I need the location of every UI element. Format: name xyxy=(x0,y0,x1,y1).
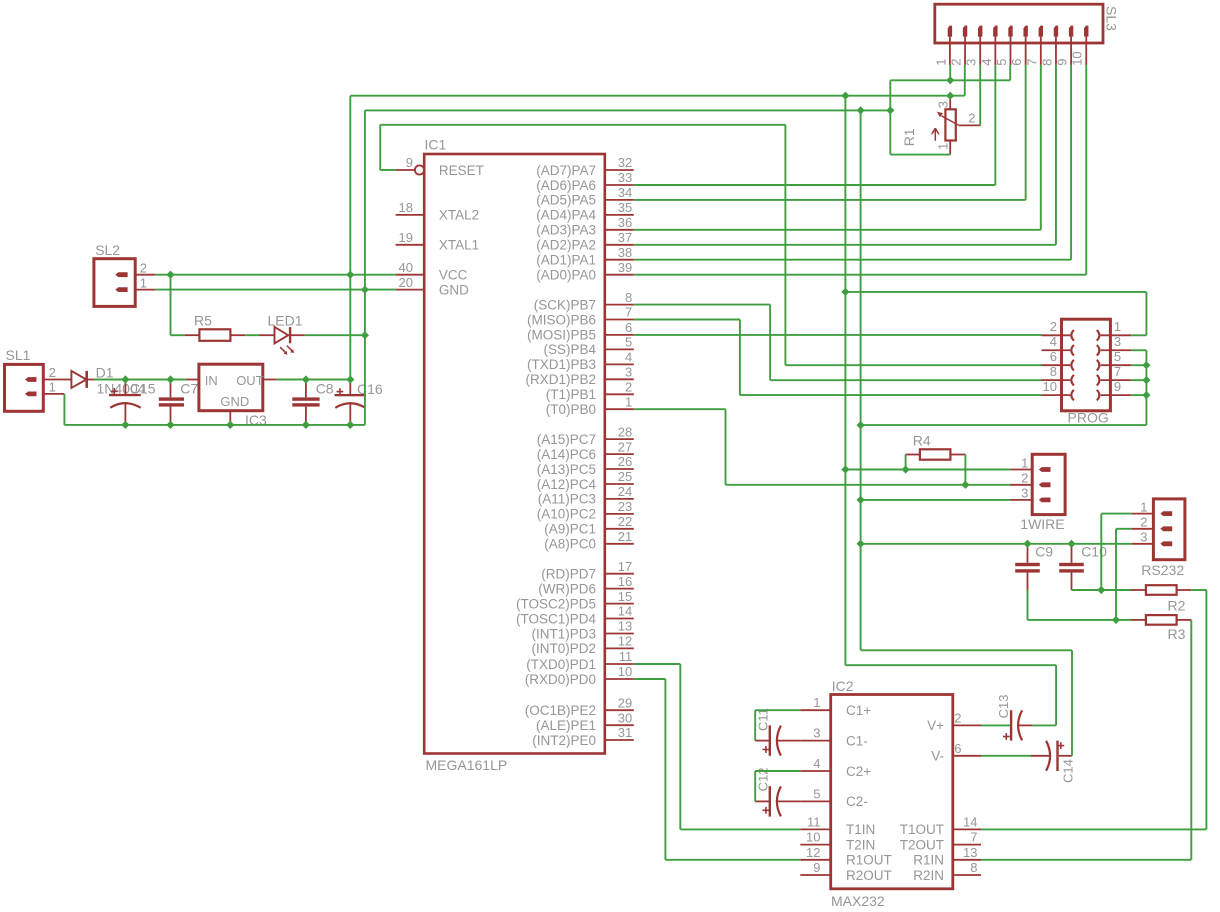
IC2 pin 1 C1+ xyxy=(800,695,871,718)
svg-text:R5: R5 xyxy=(194,313,212,329)
svg-text:3: 3 xyxy=(1114,334,1121,349)
svg-text:(RD)PD7: (RD)PD7 xyxy=(541,567,596,582)
wire R2 right xyxy=(1191,589,1206,591)
svg-text:34: 34 xyxy=(618,185,632,200)
svg-text:(T1)PB1: (T1)PB1 xyxy=(546,387,596,402)
svg-text:(RXD1)PB2: (RXD1)PB2 xyxy=(525,372,596,387)
wire RESET up xyxy=(379,125,381,170)
svg-text:(AD4)PA4: (AD4)PA4 xyxy=(536,208,596,223)
IC1 pin 5 (SS)PB4 xyxy=(543,335,633,358)
svg-text:6: 6 xyxy=(625,320,632,335)
IC1 pin 35 (AD4)PA4 xyxy=(536,200,634,223)
wire SL3 pin1 xyxy=(949,65,951,80)
junction xyxy=(361,286,369,294)
svg-text:7: 7 xyxy=(1114,364,1121,379)
junction xyxy=(302,375,310,383)
IC1 pin 24 (A11)PC3 xyxy=(538,484,634,507)
IC1 pin 26 (A13)PC5 xyxy=(537,454,634,477)
svg-text:C16: C16 xyxy=(357,381,383,397)
svg-text:2: 2 xyxy=(954,710,961,725)
svg-text:R2IN: R2IN xyxy=(913,868,944,883)
svg-text:RS232: RS232 xyxy=(1141,562,1184,578)
wire VCC to 1WIRE1 xyxy=(845,469,1010,471)
IC2 pin 11 T1IN xyxy=(800,814,875,837)
wire C13 drop xyxy=(1055,665,1057,725)
svg-text:27: 27 xyxy=(618,439,632,454)
IC1 pin 34 (AD5)PA5 xyxy=(536,185,634,208)
wire PD0 xyxy=(634,678,666,680)
IC1 pin 3 (RXD1)PB2 xyxy=(525,365,633,388)
svg-text:24: 24 xyxy=(618,484,632,499)
svg-text:17: 17 xyxy=(618,559,632,574)
wire C2+ xyxy=(755,770,800,772)
svg-text:2: 2 xyxy=(49,365,56,380)
svg-text:GND: GND xyxy=(220,394,249,409)
junction xyxy=(961,481,969,489)
svg-text:9: 9 xyxy=(1114,379,1121,394)
svg-text:(A8)PC0: (A8)PC0 xyxy=(544,537,596,552)
svg-text:19: 19 xyxy=(399,230,413,245)
svg-text:R1IN: R1IN xyxy=(913,853,944,868)
svg-text:21: 21 xyxy=(618,529,632,544)
svg-text:C11: C11 xyxy=(756,708,771,731)
wire C9-R3 xyxy=(1028,619,1132,621)
svg-text:T1IN: T1IN xyxy=(846,822,875,837)
wire to R1 pin1 xyxy=(890,154,950,156)
svg-text:13: 13 xyxy=(618,619,632,634)
IC1 pin 15 (TOSC2)PD5 xyxy=(516,589,634,612)
svg-text:3: 3 xyxy=(625,365,632,380)
svg-text:36: 36 xyxy=(618,215,632,230)
wire PA row 199.9 xyxy=(634,199,1026,201)
capacitor C7 xyxy=(159,380,199,425)
wire R1IN riser xyxy=(1190,620,1192,860)
IC1 pin 38 (AD1)PA1 xyxy=(536,245,634,268)
trimmer resistor R1 xyxy=(901,97,981,155)
svg-text:4: 4 xyxy=(625,350,632,365)
junction xyxy=(857,496,865,504)
junction xyxy=(346,375,354,383)
wire PROG gnd riser xyxy=(1145,350,1147,425)
wire RESET drop xyxy=(784,125,786,365)
svg-text:10: 10 xyxy=(1043,379,1057,394)
svg-text:3: 3 xyxy=(964,59,979,66)
svg-text:4: 4 xyxy=(813,756,820,771)
junction xyxy=(361,331,369,339)
wire C1+ xyxy=(755,709,800,711)
svg-text:T2IN: T2IN xyxy=(846,837,875,852)
svg-text:26: 26 xyxy=(618,454,632,469)
wire V+ xyxy=(981,724,1010,726)
wire PD1 to T1IN xyxy=(680,828,800,830)
svg-text:VCC: VCC xyxy=(439,268,468,283)
svg-text:1: 1 xyxy=(936,143,951,150)
svg-text:1: 1 xyxy=(813,695,820,710)
svg-text:5: 5 xyxy=(994,59,1009,66)
svg-text:C10: C10 xyxy=(1081,544,1107,560)
wire PD0 to R1OUT xyxy=(665,859,800,861)
wire GND to RS232-3 xyxy=(861,543,1132,545)
svg-text:9: 9 xyxy=(1055,59,1070,66)
svg-text:MAX232: MAX232 xyxy=(831,893,885,909)
svg-text:PROG: PROG xyxy=(1068,410,1109,426)
svg-text:3: 3 xyxy=(813,726,820,741)
svg-text:1: 1 xyxy=(49,380,56,395)
svg-text:8: 8 xyxy=(625,290,632,305)
wire C10-R2 xyxy=(1072,589,1132,591)
svg-text:9: 9 xyxy=(406,155,413,170)
IC1 pin 9 RESET xyxy=(396,155,484,178)
svg-text:(TXD0)PD1: (TXD0)PD1 xyxy=(526,657,596,672)
junction xyxy=(857,540,865,548)
IC1 pin 12 (INT0)PD2 xyxy=(531,634,633,657)
svg-text:(TOSC2)PD5: (TOSC2)PD5 xyxy=(516,596,596,611)
wire GND row xyxy=(155,289,395,291)
svg-text:6: 6 xyxy=(1050,349,1057,364)
IC2 pin 14 T1OUT xyxy=(900,814,981,837)
svg-text:2: 2 xyxy=(140,260,147,275)
svg-text:37: 37 xyxy=(618,230,632,245)
svg-text:R1: R1 xyxy=(901,128,917,146)
svg-text:(A13)PC5: (A13)PC5 xyxy=(537,462,596,477)
wire to R5 xyxy=(171,334,185,336)
svg-text:40: 40 xyxy=(399,260,413,275)
svg-text:C1+: C1+ xyxy=(846,703,871,718)
wire PA row 274.7 xyxy=(634,274,1086,276)
wire SL3 column xyxy=(1040,65,1042,230)
svg-text:C15: C15 xyxy=(130,381,156,397)
wire RESET top xyxy=(380,124,785,126)
IC1 pin 6 (MOSI)PB5 xyxy=(527,320,634,343)
junction xyxy=(166,375,174,383)
svg-text:4: 4 xyxy=(979,59,994,66)
svg-text:(AD3)PA3: (AD3)PA3 xyxy=(536,223,596,238)
wire RS232-1 drop xyxy=(1100,514,1102,590)
IC2 pin 10 T2IN xyxy=(800,830,875,853)
IC1 pin 4 (TXD1)PB3 xyxy=(527,350,634,373)
wire GND to 1WIRE3 xyxy=(861,499,1010,501)
svg-text:25: 25 xyxy=(618,469,632,484)
wire SL3 pin2 xyxy=(964,65,966,96)
svg-text:1: 1 xyxy=(1021,455,1028,470)
svg-text:R4: R4 xyxy=(913,432,931,448)
wire MISO drop xyxy=(739,320,741,396)
svg-text:7: 7 xyxy=(625,305,632,320)
svg-text:(SCK)PB7: (SCK)PB7 xyxy=(534,297,596,312)
svg-text:8: 8 xyxy=(970,860,977,875)
svg-text:1: 1 xyxy=(140,275,147,290)
svg-text:C1-: C1- xyxy=(846,733,868,748)
wire C14 drop xyxy=(1071,650,1073,756)
svg-text:(RXD0)PD0: (RXD0)PD0 xyxy=(525,672,596,687)
svg-text:(A12)PC4: (A12)PC4 xyxy=(537,477,597,492)
wire VCC row xyxy=(155,274,395,276)
wire PA row 229.8 xyxy=(634,229,1041,231)
junction xyxy=(302,421,310,429)
svg-text:XTAL1: XTAL1 xyxy=(439,238,479,253)
diode D1 1N4004 xyxy=(71,364,145,396)
wire SL3 pin5 xyxy=(1009,65,1011,80)
IC1 pin 19 XTAL1 xyxy=(396,230,480,253)
junction xyxy=(1112,616,1120,624)
svg-text:SL1: SL1 xyxy=(6,347,31,363)
wire LED1 cathode xyxy=(305,334,365,336)
junction xyxy=(346,271,354,279)
wire PD0 drop xyxy=(664,679,666,860)
svg-text:R3: R3 xyxy=(1168,626,1186,642)
IC1 pin 18 XTAL2 xyxy=(396,200,480,223)
svg-text:20: 20 xyxy=(399,275,413,290)
wire VCC to PROG1 xyxy=(845,291,1146,293)
svg-text:(T0)PB0: (T0)PB0 xyxy=(546,402,596,417)
wire PROG5 xyxy=(1131,364,1146,366)
wire GND top xyxy=(365,109,890,111)
wire PD1 xyxy=(634,663,681,665)
svg-text:16: 16 xyxy=(618,574,632,589)
IC1 pin 2 (T1)PB1 xyxy=(546,380,634,403)
IC IC2 MAX232 body xyxy=(831,678,953,909)
wire MOSI to PROG2 xyxy=(634,334,1042,336)
IC1 pin 20 GND xyxy=(396,275,470,298)
svg-text:2: 2 xyxy=(1140,515,1147,530)
svg-text:32: 32 xyxy=(618,155,632,170)
wire D1 to IC3 IN xyxy=(94,379,186,381)
svg-text:(INT1)PD3: (INT1)PD3 xyxy=(531,626,596,641)
IC1 pin 30 (ALE)PE1 xyxy=(536,710,634,733)
junction xyxy=(1097,586,1105,594)
IC1 pin 32 (AD7)PA7 xyxy=(536,155,634,178)
wire RS232-2 xyxy=(1116,528,1131,530)
IC2 pin 7 T2OUT xyxy=(900,830,981,853)
IC1 pin 22 (A9)PC1 xyxy=(544,514,634,537)
svg-text:(INT2)PE0: (INT2)PE0 xyxy=(532,733,596,748)
svg-text:D1: D1 xyxy=(96,364,114,380)
svg-text:15: 15 xyxy=(618,589,632,604)
capacitor C13 (polarized) xyxy=(996,695,1033,741)
svg-text:23: 23 xyxy=(618,499,632,514)
IC1 pin 25 (A12)PC4 xyxy=(537,469,634,492)
wire R4 right leg xyxy=(964,455,966,485)
svg-text:C7: C7 xyxy=(180,381,198,397)
IC1 pin 39 (AD0)PA0 xyxy=(536,260,634,283)
capacitor C12 (polarized) xyxy=(755,768,800,817)
IC1 pin 21 (A8)PC0 xyxy=(544,529,634,552)
svg-text:31: 31 xyxy=(618,725,632,740)
svg-text:GND: GND xyxy=(439,282,469,297)
svg-text:(AD1)PA1: (AD1)PA1 xyxy=(536,253,596,268)
IC1 pin 1 (T0)PB0 xyxy=(546,394,634,417)
svg-text:(AD7)PA7: (AD7)PA7 xyxy=(536,163,596,178)
svg-text:28: 28 xyxy=(618,424,632,439)
svg-text:C2+: C2+ xyxy=(846,764,871,779)
svg-text:C2-: C2- xyxy=(846,794,868,809)
svg-text:1WIRE: 1WIRE xyxy=(1020,516,1064,532)
wire MISO xyxy=(634,319,740,321)
svg-text:39: 39 xyxy=(618,260,632,275)
wire MISO to PROG10 xyxy=(740,394,1042,396)
wire PROG7 xyxy=(1131,379,1146,381)
wire C12 leg xyxy=(754,771,756,801)
IC1 pin 37 (AD2)PA2 xyxy=(536,230,634,253)
junction xyxy=(226,421,234,429)
wire GND to PROG xyxy=(861,424,1147,426)
svg-text:SL3: SL3 xyxy=(1104,6,1120,31)
svg-text:29: 29 xyxy=(618,695,632,710)
wire GND to C14 xyxy=(861,649,1072,651)
svg-text:38: 38 xyxy=(618,245,632,260)
svg-text:5: 5 xyxy=(813,786,820,801)
svg-text:18: 18 xyxy=(399,200,413,215)
IC1 pin 7 (MISO)PB6 xyxy=(527,305,634,328)
wire SL3 column xyxy=(1085,65,1087,275)
junction xyxy=(166,271,174,279)
IC2 pin 12 R1OUT xyxy=(800,845,891,868)
wire C13 right xyxy=(1033,724,1057,726)
svg-text:LED1: LED1 xyxy=(268,313,303,329)
junction xyxy=(1067,540,1075,548)
wire VCC top xyxy=(350,95,965,97)
IC2 pin 13 R1IN xyxy=(913,845,981,868)
svg-text:(AD6)PA6: (AD6)PA6 xyxy=(536,178,596,193)
IC1 pin 23 (A10)PC2 xyxy=(537,499,634,522)
svg-text:IN: IN xyxy=(205,373,218,388)
svg-text:2: 2 xyxy=(1021,471,1028,486)
svg-text:33: 33 xyxy=(618,170,632,185)
IC2 pin 9 R2OUT xyxy=(800,860,891,883)
wire VCC to C13 xyxy=(845,664,1056,666)
svg-text:4: 4 xyxy=(1050,334,1057,349)
wire PB0 to 1WIRE2 xyxy=(726,484,1010,486)
IC2 pin 8 R2IN xyxy=(913,860,981,883)
svg-text:(ALE)PE1: (ALE)PE1 xyxy=(536,718,596,733)
wire SL3 column xyxy=(1055,65,1057,245)
svg-text:IC2: IC2 xyxy=(832,678,854,694)
svg-text:1: 1 xyxy=(625,394,632,409)
wire RESET stub xyxy=(380,169,395,171)
IC1 pin 33 (AD6)PA6 xyxy=(536,170,634,193)
wire PB0 xyxy=(634,408,726,410)
resistor R4 xyxy=(906,432,966,459)
capacitor C8 xyxy=(292,380,334,425)
svg-text:7: 7 xyxy=(1024,59,1039,66)
wire PROG1 xyxy=(1131,334,1146,336)
capacitor C9 xyxy=(1015,544,1053,590)
svg-text:5: 5 xyxy=(625,335,632,350)
svg-text:C14: C14 xyxy=(1060,759,1075,783)
wire C11 leg xyxy=(754,710,756,740)
capacitor C11 (polarized) xyxy=(755,708,800,756)
junction xyxy=(1142,391,1150,399)
LED LED1 xyxy=(259,313,305,355)
wire VCC vertical xyxy=(349,96,351,380)
svg-text:7: 7 xyxy=(970,830,977,845)
IC2 pin 6 V- xyxy=(931,741,981,764)
wire T1OUT xyxy=(981,828,1206,830)
svg-text:6: 6 xyxy=(1009,59,1024,66)
svg-text:3: 3 xyxy=(936,101,951,108)
wire SCK xyxy=(634,304,770,306)
svg-text:R1OUT: R1OUT xyxy=(846,853,892,868)
wire V- xyxy=(981,755,1031,757)
wire RESET to PROG6 xyxy=(785,364,1041,366)
IC1 pin 8 (SCK)PB7 xyxy=(534,290,634,313)
IC1 pin 16 (WR)PD6 xyxy=(538,574,634,597)
svg-text:2: 2 xyxy=(949,59,964,66)
wire C9 bottom drop xyxy=(1027,590,1029,620)
wire PA row 259.7 xyxy=(634,259,1071,261)
junction xyxy=(946,92,954,100)
wire PD1 drop xyxy=(679,664,681,829)
junction xyxy=(841,465,849,473)
junction xyxy=(346,421,354,429)
IC1 pin 14 (TOSC1)PD4 xyxy=(516,604,634,627)
svg-text:(TOSC1)PD4: (TOSC1)PD4 xyxy=(516,611,597,626)
svg-text:35: 35 xyxy=(618,200,632,215)
svg-text:14: 14 xyxy=(963,814,977,829)
junction xyxy=(902,465,910,473)
svg-text:MEGA161LP: MEGA161LP xyxy=(426,757,508,773)
svg-text:10: 10 xyxy=(618,664,632,679)
capacitor C14 (polarized) xyxy=(1031,741,1075,783)
IC2 pin 5 C2- xyxy=(800,786,867,809)
svg-text:(TXD1)PB3: (TXD1)PB3 xyxy=(527,357,596,372)
svg-text:(AD0)PA0: (AD0)PA0 xyxy=(536,268,596,283)
svg-text:13: 13 xyxy=(963,845,977,860)
svg-text:R2OUT: R2OUT xyxy=(846,868,892,883)
capacitor C16 (polarized) xyxy=(335,380,383,425)
svg-text:(AD5)PA5: (AD5)PA5 xyxy=(536,193,596,208)
svg-text:(INT0)PD2: (INT0)PD2 xyxy=(531,641,596,656)
svg-text:(A11)PC3: (A11)PC3 xyxy=(538,492,596,507)
IC2 pin 2 V+ xyxy=(927,710,981,733)
svg-text:3: 3 xyxy=(1140,530,1147,545)
svg-text:(MISO)PB6: (MISO)PB6 xyxy=(527,312,596,327)
svg-text:(A14)PC6: (A14)PC6 xyxy=(537,447,596,462)
connector SL3 xyxy=(933,4,1119,66)
wire SL3 column xyxy=(994,65,996,185)
svg-text:(SS)PB4: (SS)PB4 xyxy=(543,342,596,357)
junction xyxy=(1023,540,1031,548)
svg-text:R2: R2 xyxy=(1168,598,1186,614)
IC1 pin 10 (RXD0)PD0 xyxy=(525,664,634,687)
wire RS232-2 drop xyxy=(1115,529,1117,620)
svg-text:(MOSI)PB5: (MOSI)PB5 xyxy=(527,328,596,343)
svg-text:1: 1 xyxy=(1114,319,1121,334)
wire PROG1 drop xyxy=(1145,292,1147,335)
IC1 pin 29 (OC1B)PE2 xyxy=(525,695,634,718)
svg-text:(OC1B)PE2: (OC1B)PE2 xyxy=(525,703,596,718)
wire PA row 185.0 xyxy=(634,184,996,186)
IC1 pin 36 (AD3)PA3 xyxy=(536,215,634,238)
wire RS232-1 xyxy=(1101,513,1131,515)
IC2 pin 3 C1- xyxy=(800,726,867,749)
svg-text:2: 2 xyxy=(968,110,975,125)
wire PROG3 xyxy=(1131,349,1146,351)
svg-text:2: 2 xyxy=(625,380,632,395)
svg-text:8: 8 xyxy=(1039,59,1054,66)
svg-text:6: 6 xyxy=(954,741,961,756)
junction xyxy=(886,106,894,114)
svg-text:IC1: IC1 xyxy=(425,137,447,153)
svg-text:(A9)PC1: (A9)PC1 xyxy=(544,522,596,537)
svg-text:RESET: RESET xyxy=(439,163,484,178)
wire R1IN xyxy=(981,859,1191,861)
svg-text:8: 8 xyxy=(1050,364,1057,379)
wire SL3 column xyxy=(1070,65,1072,260)
svg-text:5: 5 xyxy=(1114,349,1121,364)
svg-text:14: 14 xyxy=(618,604,632,619)
svg-text:22: 22 xyxy=(618,514,632,529)
